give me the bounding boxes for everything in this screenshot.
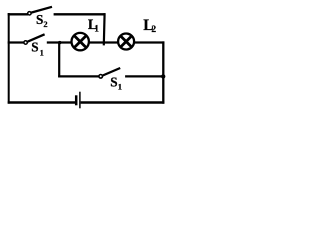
wire bottom left segment — [8, 101, 76, 103]
svg-text:S: S — [31, 40, 38, 55]
svg-text:S: S — [36, 12, 43, 27]
switch S2 blade — [31, 7, 52, 13]
wire top branch left segment — [8, 13, 28, 15]
lamp L2 — [118, 34, 134, 50]
svg-text:2: 2 — [151, 25, 156, 35]
svg-text:2: 2 — [43, 19, 47, 29]
wire bottom branch right segment — [125, 75, 164, 77]
lamp L1 — [72, 33, 89, 50]
battery positive plate long thin — [79, 92, 81, 109]
wire right edge — [162, 41, 164, 103]
switch S1 pivot — [24, 41, 27, 44]
switch S1b blade — [103, 68, 121, 76]
wire middle branch left segment — [8, 41, 25, 43]
node A junction dot — [58, 41, 61, 44]
wire node B vertical connector — [103, 13, 106, 45]
wire bottom right segment — [81, 101, 165, 103]
wire node A vertical drop — [58, 42, 60, 77]
wire middle branch between L1 and L2 — [89, 41, 119, 43]
svg-text:1: 1 — [118, 81, 122, 91]
switch S1 blade — [28, 34, 45, 41]
wire left edge — [8, 13, 10, 104]
junction dot right edge — [161, 74, 165, 78]
switch S2 pivot — [28, 12, 31, 15]
switch S1b pivot — [99, 75, 103, 79]
svg-text:1: 1 — [40, 48, 44, 58]
battery negative plate short thick — [75, 95, 78, 105]
svg-text:S: S — [110, 75, 117, 90]
wire middle branch right segment — [134, 41, 164, 43]
wire bottom branch left segment — [58, 75, 98, 77]
wire middle branch contact to node A — [47, 41, 71, 43]
wire top branch right segment — [54, 13, 106, 15]
svg-text:1: 1 — [94, 25, 99, 35]
